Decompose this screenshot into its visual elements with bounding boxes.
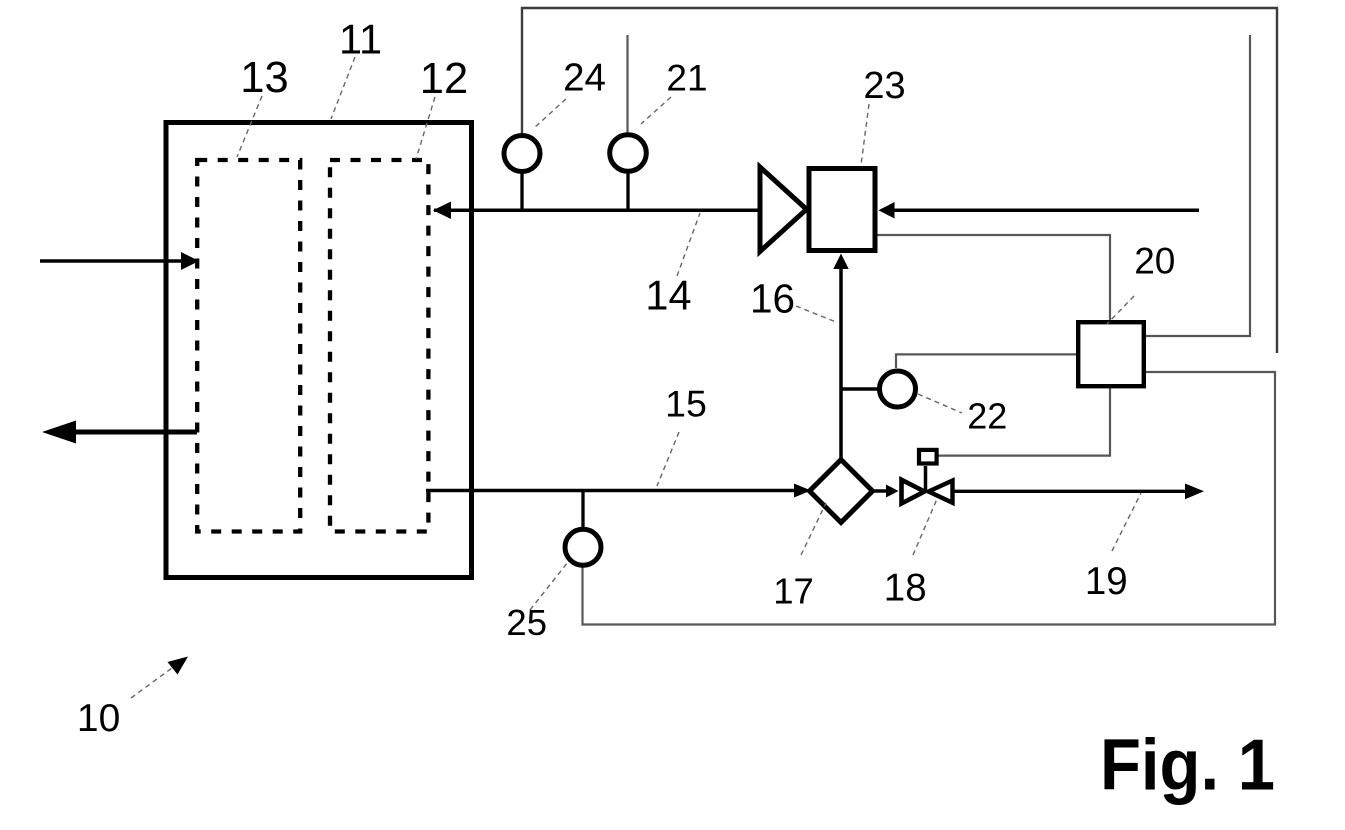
svg-text:13: 13 [240,54,288,102]
svg-text:12: 12 [420,55,468,103]
svg-text:25: 25 [506,602,547,643]
svg-text:23: 23 [863,65,905,107]
svg-text:18: 18 [884,566,927,609]
svg-text:20: 20 [1134,240,1175,281]
svg-text:19: 19 [1085,560,1128,603]
svg-text:17: 17 [773,570,814,611]
svg-text:15: 15 [665,382,707,424]
svg-text:21: 21 [666,58,707,99]
svg-text:22: 22 [967,395,1007,436]
svg-text:10: 10 [77,697,120,740]
svg-text:11: 11 [339,15,382,62]
svg-text:14: 14 [645,271,691,318]
svg-text:Fig. 1: Fig. 1 [1100,726,1275,806]
svg-text:24: 24 [563,57,606,100]
svg-text:16: 16 [750,276,795,322]
